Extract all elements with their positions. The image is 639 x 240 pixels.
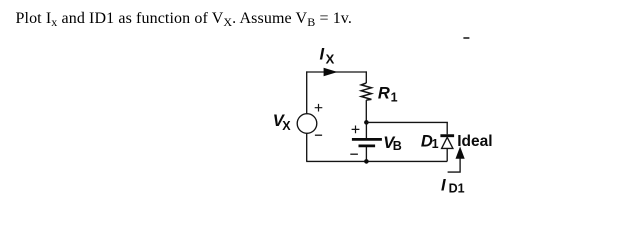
label VX	[273, 112, 292, 133]
battery minus sign	[350, 153, 358, 155]
svg-text:B: B	[393, 139, 402, 153]
label ID1	[441, 176, 465, 195]
wire right vertical to resistor	[365, 71, 367, 83]
source minus sign	[315, 134, 322, 136]
svg-text:X: X	[326, 52, 335, 67]
wire diode branch vertical (top)	[446, 122, 448, 134]
wire bottom rail	[306, 160, 447, 162]
svg-text:D1: D1	[449, 181, 465, 195]
svg-text:1: 1	[391, 91, 398, 105]
label D1	[421, 132, 439, 151]
battery VB bottom plate	[359, 145, 376, 148]
svg-text:I: I	[320, 45, 325, 63]
label VB	[383, 134, 402, 153]
source VX	[297, 114, 317, 134]
diode D1 cathode bar	[440, 134, 454, 137]
caption text	[16, 10, 353, 28]
wire diode to bottom rail	[446, 148, 448, 161]
source plus sign	[315, 104, 323, 112]
wire battery to bottom node	[365, 147, 367, 161]
stray dash mark	[463, 37, 469, 39]
svg-text:X: X	[282, 119, 291, 133]
wire top horizontal	[306, 71, 367, 73]
wire node to diode branch	[366, 121, 448, 123]
node A (junction dot top)	[364, 120, 369, 125]
svg-text:R: R	[378, 84, 390, 102]
resistor R1	[361, 83, 371, 100]
wire left vertical (bottom)	[306, 133, 308, 161]
current arrow ID1	[448, 147, 465, 173]
battery VB top plate	[352, 138, 382, 141]
battery plus sign	[352, 126, 360, 134]
wire left vertical (top)	[306, 71, 308, 113]
wire resistor to node	[365, 100, 367, 122]
label R1	[378, 84, 398, 104]
wire node to battery	[365, 122, 367, 138]
current arrow IX	[324, 68, 338, 77]
diode D1 triangle	[442, 137, 453, 148]
node B (junction dot bottom)	[364, 159, 369, 164]
label IX	[320, 45, 335, 66]
svg-text:I: I	[441, 176, 446, 194]
svg-text:Ideal: Ideal	[457, 133, 492, 150]
svg-text:1: 1	[432, 137, 439, 151]
